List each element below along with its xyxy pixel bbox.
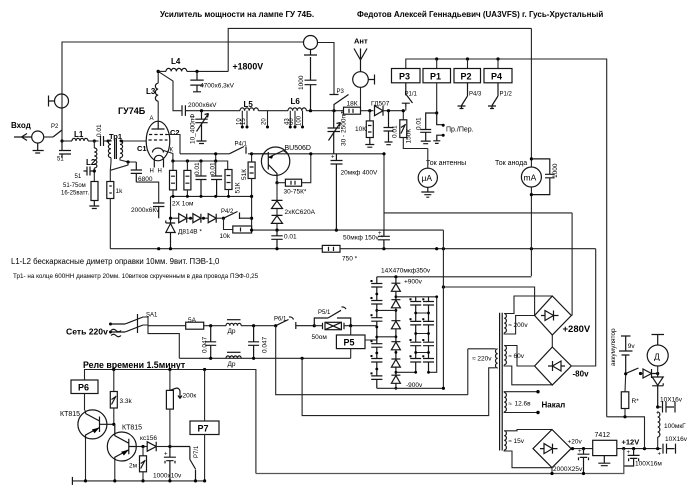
svg-text:0.01: 0.01 bbox=[96, 124, 103, 137]
rail A y230.1 bbox=[252, 229, 444, 231]
wire primary feed riser bbox=[467, 349, 469, 395]
svg-text:Р4: Р4 bbox=[491, 72, 502, 82]
svg-text:51К: 51К bbox=[235, 182, 242, 193]
resistor bank bottoms to rail196 bbox=[173, 190, 229, 197]
tube grid1 dashed bbox=[149, 139, 168, 141]
svg-text:Н: Н bbox=[158, 169, 162, 175]
wire 150K to uA meter bbox=[403, 138, 428, 149]
bridge rectifier 2 -80v bbox=[535, 347, 572, 385]
wire mains drop 2 bbox=[302, 358, 496, 415]
resistor 2m bbox=[142, 447, 144, 456]
wire top +1800 feed y28.4 bbox=[228, 28, 531, 71]
svg-text:0.01: 0.01 bbox=[392, 125, 399, 138]
ground uA bbox=[421, 187, 434, 197]
secondary 12.6v winding bbox=[504, 393, 506, 412]
relay box P3 bbox=[392, 69, 421, 83]
stack cap column 3 bbox=[410, 297, 421, 373]
capacitor 0.01 Pr/Per bbox=[420, 113, 437, 144]
svg-text:Р2: Р2 bbox=[51, 124, 59, 130]
svg-text:-900v: -900v bbox=[406, 382, 423, 389]
L5 taps bbox=[242, 111, 267, 127]
svg-text:2000х6Кv: 2000х6Кv bbox=[131, 207, 160, 214]
svg-text:ГД507: ГД507 bbox=[371, 101, 390, 108]
winding 12.6v leads Nakal bbox=[504, 392, 538, 413]
col3/4 dots bbox=[414, 312, 430, 374]
svg-text:2хКС620А: 2хКС620А bbox=[285, 209, 316, 216]
svg-text:L1-L2 бескаркасные диметр опра: L1-L2 бескаркасные диметр оправки 10мм. … bbox=[11, 257, 220, 266]
svg-text:С2: С2 bbox=[170, 128, 180, 137]
svg-text:51-75ом: 51-75ом bbox=[63, 183, 86, 189]
svg-text:кс156: кс156 bbox=[140, 435, 157, 442]
svg-text:Р1/2: Р1/2 bbox=[500, 92, 513, 98]
resistor X 50om bbox=[325, 322, 341, 329]
ground 10K bbox=[365, 138, 374, 148]
switch battery bbox=[626, 368, 639, 374]
secondary 60v winding bbox=[504, 346, 506, 365]
stack diode column bbox=[391, 277, 400, 389]
svg-text:100Х16м: 100Х16м bbox=[635, 461, 662, 468]
svg-text:0.01: 0.01 bbox=[210, 162, 217, 175]
wire to 1k node bbox=[110, 162, 128, 170]
capacitor 2000X25v bbox=[578, 449, 590, 474]
col1 junction dots bbox=[375, 293, 378, 371]
connector circle on top wire bbox=[304, 36, 318, 50]
wire screen supply elbow bbox=[384, 154, 572, 213]
wire antenna down bbox=[360, 87, 362, 107]
wire 30-75K to collector rail bbox=[302, 154, 311, 183]
stack top rail y277.3 bbox=[377, 276, 532, 278]
svg-text:+1800V: +1800V bbox=[233, 62, 264, 72]
svg-text:L3: L3 bbox=[146, 87, 156, 96]
zener D814V chain riser bbox=[170, 196, 172, 218]
svg-text:+: + bbox=[331, 155, 335, 161]
relay box P5 bbox=[336, 335, 365, 349]
tube grid2 dashed bbox=[149, 134, 167, 136]
svg-text:L2: L2 bbox=[86, 158, 96, 167]
svg-text:100мкГ: 100мкГ bbox=[664, 423, 686, 430]
diode chain wire y218.2 bbox=[171, 217, 179, 219]
stack bottom rail bbox=[377, 387, 444, 389]
wire vertical x62 bbox=[61, 108, 63, 141]
wire mains neutral drop 1 bbox=[276, 326, 468, 395]
svg-text:2м: 2м bbox=[129, 463, 138, 470]
resistor 51K grid bbox=[251, 154, 253, 162]
resistor 1k bbox=[107, 182, 114, 199]
wire bridge3 bottom stub bbox=[551, 468, 553, 474]
capacitor 0.01 bank #1 bbox=[200, 161, 202, 176]
node 10K bbox=[368, 109, 371, 112]
col3/4 jumpers bbox=[416, 297, 437, 373]
svg-text:Сеть 220v: Сеть 220v bbox=[66, 327, 108, 337]
svg-text:15: 15 bbox=[241, 118, 247, 125]
zener KS620A #2 bbox=[276, 209, 278, 216]
svg-text:20мкф 400V: 20мкф 400V bbox=[341, 170, 379, 177]
diode 3 bbox=[208, 214, 216, 223]
zener KS620A #1 bbox=[276, 183, 278, 201]
wire bbox=[88, 140, 99, 142]
winding 200v bottom lead bbox=[504, 316, 534, 335]
rheostat 200k bbox=[169, 370, 171, 391]
relay box P2 bbox=[454, 69, 481, 83]
svg-text:50ом: 50ом bbox=[312, 334, 328, 341]
diode battery bbox=[641, 369, 658, 378]
svg-text:0.047: 0.047 bbox=[262, 336, 269, 353]
resistor 10k bbox=[224, 218, 233, 229]
relay box P7 bbox=[190, 421, 219, 435]
svg-text:2Х 1ом: 2Х 1ом bbox=[172, 201, 194, 208]
svg-text:R*: R* bbox=[632, 398, 640, 405]
ground bbox=[33, 143, 44, 153]
col1 plus marks bbox=[371, 280, 373, 374]
stack cap column 1 bbox=[371, 277, 382, 389]
svg-text:А: А bbox=[150, 116, 154, 122]
svg-text:Р5: Р5 bbox=[344, 338, 355, 348]
diode 1 bbox=[179, 214, 187, 223]
svg-text:L1: L1 bbox=[74, 130, 84, 139]
wire P5 box right to stack bbox=[365, 337, 377, 340]
lamp D bbox=[652, 335, 665, 346]
tube cathode arc bbox=[153, 148, 164, 153]
bridge rectifier 3 +20v bbox=[533, 430, 571, 468]
svg-text:L4: L4 bbox=[171, 57, 181, 66]
wire Tp1 primary bottom to 1k bbox=[109, 158, 112, 171]
svg-text:750 *: 750 * bbox=[342, 256, 358, 263]
inductor 100mkG bbox=[658, 412, 660, 437]
wire anode line to L5 bbox=[190, 110, 240, 112]
svg-text:100: 100 bbox=[297, 115, 303, 126]
input connector XW1 bbox=[32, 131, 44, 143]
wire bbox=[93, 141, 95, 182]
wire L4 to +1800 corner bbox=[187, 70, 228, 72]
meter uA bbox=[427, 149, 429, 169]
svg-text:аккумулятор: аккумулятор bbox=[610, 328, 617, 366]
wire Q2 base right bbox=[137, 446, 148, 448]
dot Tp1 in bbox=[107, 140, 110, 143]
svg-text:≈ 220v: ≈ 220v bbox=[472, 356, 492, 363]
wire 51K down bbox=[251, 179, 253, 231]
relay bus jog to +12V bbox=[607, 417, 645, 449]
zener D814V bbox=[166, 218, 175, 249]
wire railB drop x443.4 bbox=[442, 230, 444, 388]
svg-text:+: + bbox=[658, 452, 662, 458]
wire bbox=[104, 140, 108, 142]
resistor 30-75K bbox=[277, 182, 285, 184]
svg-text:+12V: +12V bbox=[622, 438, 640, 447]
meter mA bbox=[521, 167, 541, 187]
wire 18K to diode bbox=[361, 110, 374, 112]
svg-text:Р2: Р2 bbox=[461, 72, 472, 82]
wire L5 to L6 bbox=[258, 110, 288, 112]
bank rail y161 bbox=[173, 161, 228, 170]
svg-text:Р7: Р7 bbox=[198, 424, 209, 434]
svg-text:200к: 200к bbox=[183, 393, 197, 400]
rail y196.4 bbox=[171, 195, 252, 197]
wire Tp1 primary top bbox=[108, 140, 112, 141]
stack cap column 4 bbox=[423, 297, 434, 373]
svg-text:Д: Д bbox=[654, 352, 660, 362]
wire Tp1 sec top to tube grid bbox=[120, 140, 147, 141]
svg-text:0.01: 0.01 bbox=[416, 117, 423, 130]
capacitor 0.047 #2 bbox=[248, 326, 259, 359]
svg-text:0.047: 0.047 bbox=[202, 336, 209, 353]
svg-text:1000х10v: 1000х10v bbox=[153, 473, 182, 480]
cathode rail y153.8 left bbox=[180, 153, 229, 155]
svg-text:Усилитель мощности на лампе ГУ: Усилитель мощности на лампе ГУ 74Б. bbox=[160, 10, 314, 19]
svg-text:+: + bbox=[164, 452, 168, 458]
svg-text:4700х6,3кV: 4700х6,3кV bbox=[200, 83, 235, 90]
svg-text:ГУ74Б: ГУ74Б bbox=[118, 106, 146, 116]
choke Dr bottom bbox=[226, 356, 241, 358]
winding 60v top lead bbox=[504, 346, 534, 367]
tube heater pins bbox=[154, 155, 163, 167]
wire mains into X bbox=[314, 325, 377, 327]
capacitor 4700x6,3kV bbox=[190, 71, 203, 91]
relay box P1 bbox=[423, 69, 451, 83]
capacitor 1000 meter shunt bbox=[531, 159, 554, 195]
resistor 3.3k bbox=[113, 370, 115, 392]
relay box P6 bbox=[71, 380, 98, 394]
secondary 200v winding bbox=[504, 314, 506, 333]
cathode rail y153.8 right bbox=[248, 153, 384, 155]
variable capacitor 10-400pF bbox=[200, 109, 203, 112]
+20v rail bbox=[571, 448, 593, 450]
node after diode bbox=[387, 109, 390, 112]
svg-text:Накал: Накал bbox=[542, 401, 566, 410]
svg-text:+: + bbox=[578, 449, 582, 455]
+12V rail bbox=[617, 448, 662, 450]
wire +280 riser bbox=[571, 213, 573, 316]
tube anode plate bbox=[152, 121, 165, 129]
transformer core bbox=[500, 313, 503, 451]
svg-text:+900v: +900v bbox=[404, 279, 423, 286]
capacitor 0.01 bank #2 bbox=[215, 161, 217, 176]
capacitor 0.01 antenna bbox=[384, 111, 394, 145]
secondary 15v winding bbox=[504, 431, 506, 450]
svg-text:10Х16v: 10Х16v bbox=[660, 397, 683, 404]
timer ground rail bbox=[72, 480, 204, 482]
wire P7 bottom bbox=[204, 435, 206, 481]
svg-text:60v: 60v bbox=[514, 353, 525, 360]
capacitor 2000x6kV anode coupling bbox=[182, 105, 190, 116]
capacitor 51 bbox=[59, 141, 71, 158]
wire X out to stack col1 mid bbox=[376, 326, 378, 327]
svg-text:Федотов Алексей Геннадьевич (U: Федотов Алексей Геннадьевич (UA3VFS) г. … bbox=[357, 10, 603, 19]
svg-text:BU506D: BU506D bbox=[285, 145, 311, 152]
svg-text:2000Х25v: 2000Х25v bbox=[553, 466, 583, 473]
wire bridge1 bottom to bridge2 bbox=[551, 335, 553, 347]
diode col dots bbox=[395, 295, 398, 389]
svg-text:51: 51 bbox=[57, 157, 64, 163]
wire screen to cathode rail bbox=[167, 135, 180, 154]
svg-text:51: 51 bbox=[75, 174, 82, 180]
resistor 51K bank bbox=[225, 170, 232, 190]
zener below lamp bbox=[652, 374, 663, 408]
wire 3.3k to base node bbox=[113, 408, 115, 424]
wire bridge1 out bbox=[570, 315, 573, 317]
svg-text:Д814В *: Д814В * bbox=[178, 229, 202, 236]
wire Tp1 sec bottom bbox=[120, 158, 136, 162]
wire meter top bbox=[530, 28, 532, 167]
svg-text:+: + bbox=[627, 450, 631, 456]
wire primary top lead bbox=[468, 348, 496, 350]
ground of connector bbox=[304, 50, 317, 56]
input arrow bbox=[14, 134, 32, 141]
wire meter bottom bbox=[530, 187, 532, 276]
antenna connector bbox=[353, 72, 369, 88]
wire X node into P5 bbox=[350, 326, 352, 335]
wire Q2 emitter down bbox=[114, 461, 116, 481]
svg-text:30-75К*: 30-75К* bbox=[284, 189, 307, 196]
svg-text:Р4/3: Р4/3 bbox=[469, 92, 482, 98]
capacitor 100X16m bbox=[624, 449, 640, 466]
svg-text:Др: Др bbox=[228, 361, 236, 368]
variable capacitor 30-2500pF bbox=[328, 111, 341, 154]
svg-text:КТ815: КТ815 bbox=[60, 411, 80, 418]
svg-text:10_400пФ: 10_400пФ bbox=[190, 114, 197, 144]
svg-text:μА: μА bbox=[422, 173, 433, 183]
svg-text:1k: 1k bbox=[116, 188, 124, 195]
relay box P4 bbox=[484, 69, 512, 83]
resistor bank element R 1om #2 bbox=[186, 161, 188, 170]
resistor 10K bbox=[366, 121, 373, 138]
choke Dr top bbox=[226, 323, 241, 325]
svg-text:Р1: Р1 bbox=[430, 72, 441, 82]
capacitor 0.047 #1 bbox=[205, 326, 216, 359]
wire P6 to Q1 bbox=[84, 394, 86, 411]
resistor 750 in rail B bbox=[322, 245, 340, 252]
svg-text:10Х16v: 10Х16v bbox=[665, 436, 688, 443]
svg-text:Ток анода: Ток анода bbox=[495, 160, 527, 167]
node Pr/Per bbox=[435, 111, 438, 114]
svg-text:+20v: +20v bbox=[568, 439, 583, 446]
svg-text:-80v: -80v bbox=[573, 370, 590, 379]
node P1 stub bbox=[435, 57, 438, 60]
svg-text:9v: 9v bbox=[628, 343, 636, 350]
resistor 150K bbox=[400, 120, 407, 138]
wire anode stem bbox=[157, 101, 159, 121]
node P2 stub bbox=[466, 57, 469, 60]
svg-text:18К: 18К bbox=[347, 101, 358, 108]
wire 384 down to rail A bbox=[383, 213, 385, 230]
svg-text:С1: С1 bbox=[137, 144, 147, 153]
resistor R* bbox=[621, 392, 629, 409]
dot at Tp1 sec bbox=[120, 140, 123, 143]
svg-text:12.6в: 12.6в bbox=[515, 401, 532, 408]
wire P7 top bbox=[204, 370, 206, 422]
svg-text:30 - 2500пФ: 30 - 2500пФ bbox=[341, 110, 348, 146]
riser main line to bank rail bbox=[215, 154, 217, 161]
base wire bbox=[252, 153, 262, 155]
svg-text:1000: 1000 bbox=[298, 75, 305, 90]
node 6800 bbox=[126, 160, 129, 163]
svg-text:Ант: Ант bbox=[354, 37, 368, 46]
wire L6 out bbox=[306, 110, 343, 112]
svg-text:15v: 15v bbox=[514, 438, 525, 445]
wire cathode to bank rail bbox=[164, 151, 173, 162]
wire 1k top bbox=[109, 170, 111, 181]
switch arm P2 bbox=[53, 130, 62, 137]
svg-text:51К: 51К bbox=[241, 169, 248, 180]
rail B continues bbox=[340, 248, 596, 250]
svg-text:14Х470мкф350v: 14Х470мкф350v bbox=[381, 268, 431, 275]
svg-text:0.01: 0.01 bbox=[194, 162, 201, 175]
L6 taps bbox=[290, 111, 302, 127]
bridge rectifier 1 +280V bbox=[535, 296, 572, 335]
ground bbox=[89, 201, 99, 209]
svg-text:0.01: 0.01 bbox=[284, 234, 297, 241]
svg-text:Пр./Пер.: Пр./Пер. bbox=[446, 127, 474, 134]
node 1000 cap riser bbox=[309, 109, 312, 112]
capacitor 51 at L2 bbox=[84, 167, 95, 176]
stub of indicator bbox=[49, 96, 55, 107]
svg-text:Н: Н bbox=[150, 169, 154, 175]
wire bridge2 out riser bbox=[571, 249, 595, 366]
rail B y248.7 bbox=[110, 248, 322, 250]
svg-text:Ток антенны: Ток антенны bbox=[426, 160, 466, 167]
svg-text:+: + bbox=[378, 231, 382, 237]
svg-text:mA: mA bbox=[524, 173, 537, 183]
svg-text:20: 20 bbox=[262, 118, 268, 125]
svg-text:Вход: Вход bbox=[11, 121, 31, 130]
capacitor 1000 drop bbox=[305, 57, 317, 111]
capacitor 20mkf 400V bbox=[331, 154, 343, 230]
wire mains bottom to P5 coil bbox=[350, 349, 352, 359]
wire choke out bbox=[241, 325, 276, 327]
svg-text:Р5/1: Р5/1 bbox=[318, 310, 331, 316]
svg-text:Тр1- на колце 600НН диаметр 20: Тр1- на колце 600НН диаметр 20мм. 10витк… bbox=[13, 273, 259, 280]
svg-text:3.3k: 3.3k bbox=[120, 398, 133, 405]
return rail bottom bbox=[256, 449, 624, 474]
wire bbox=[62, 140, 72, 142]
svg-text:150К: 150К bbox=[406, 129, 413, 144]
node L3/L4 bbox=[157, 70, 160, 73]
svg-text:Др: Др bbox=[228, 328, 236, 335]
winding 15v bottom lead bbox=[504, 450, 552, 468]
wire P1 box down bbox=[436, 83, 438, 113]
diode 2 bbox=[193, 214, 201, 223]
wire y287 link bbox=[443, 287, 534, 316]
winding 200v top lead bbox=[504, 296, 552, 314]
capacitor 6800 bbox=[131, 162, 142, 182]
svg-text:2000х6кV: 2000х6кV bbox=[188, 102, 217, 109]
wire fuse to filter bbox=[204, 325, 226, 327]
wire Q1 emitter down bbox=[85, 439, 87, 481]
svg-text:Р6: Р6 bbox=[78, 383, 89, 393]
winding 60v bottom lead bbox=[504, 365, 552, 385]
resistor 51-75om dummy load bbox=[91, 182, 98, 201]
wire 6800 to 2000x6Kv bbox=[136, 182, 158, 202]
svg-text:1000: 1000 bbox=[552, 163, 559, 178]
node L1 in bbox=[60, 139, 63, 142]
capacitor 2000x6Kv bbox=[153, 203, 164, 218]
svg-text:16-25ватт.: 16-25ватт. bbox=[61, 191, 90, 197]
emitter node bbox=[275, 181, 278, 184]
svg-text:7412: 7412 bbox=[595, 432, 611, 439]
wire 1k bottom to bottom rail bbox=[109, 199, 111, 249]
node P3 riser bbox=[332, 109, 335, 112]
svg-text:КТ815: КТ815 bbox=[122, 425, 142, 432]
stack jumpers bbox=[377, 297, 437, 373]
mains terminals bbox=[109, 323, 112, 326]
svg-text:60: 60 bbox=[289, 118, 295, 125]
wire bbox=[318, 43, 335, 95]
col3/4 plus marks bbox=[410, 298, 425, 357]
timer top rail bbox=[85, 370, 256, 474]
svg-text:L6: L6 bbox=[291, 97, 301, 106]
svg-text:Р7/1: Р7/1 bbox=[194, 445, 200, 458]
winding 15v top lead bbox=[504, 430, 552, 431]
primary 220v winding bbox=[496, 349, 498, 368]
